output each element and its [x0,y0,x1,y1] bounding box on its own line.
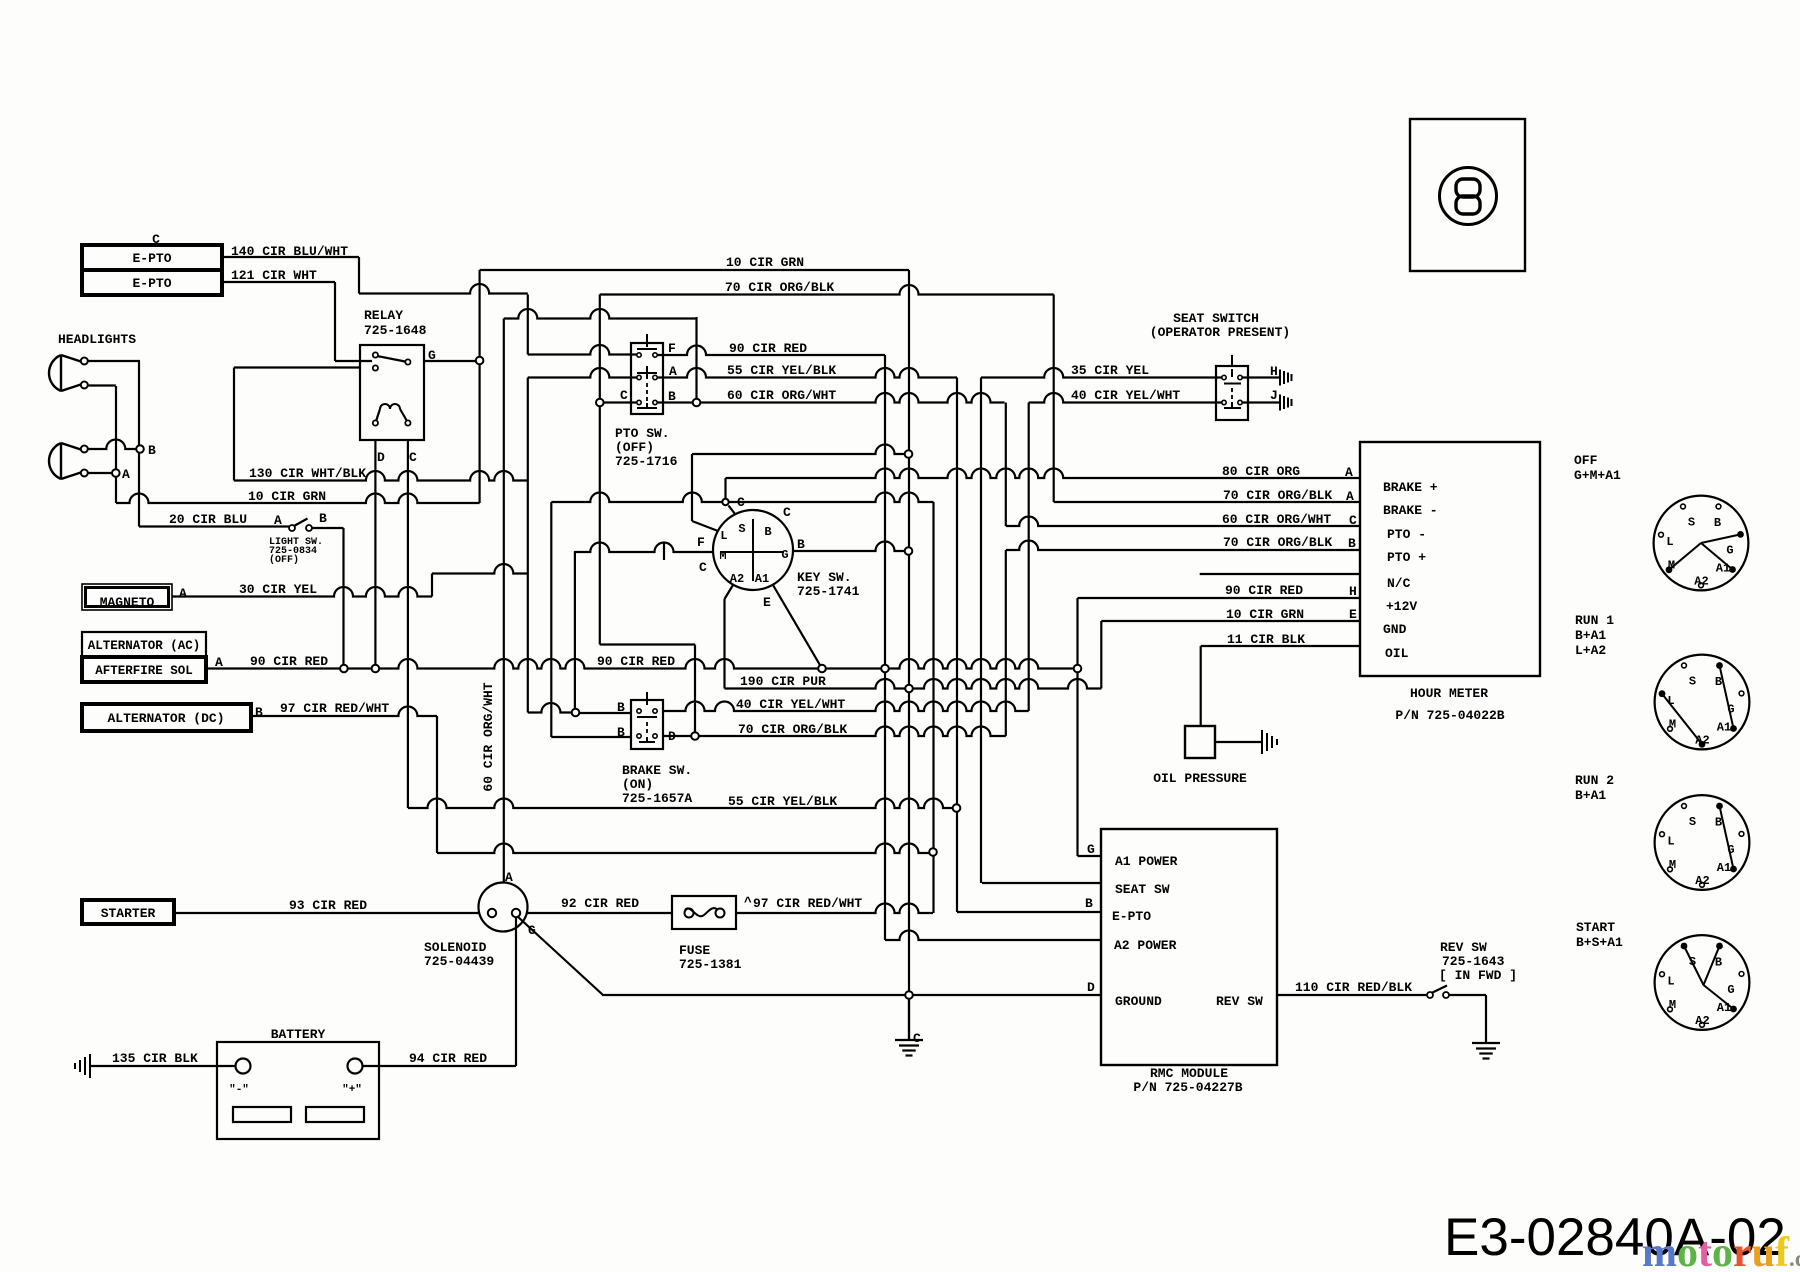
svg-text:^: ^ [744,895,752,910]
svg-text:REV SW: REV SW [1440,940,1487,955]
svg-text:H: H [1349,584,1357,599]
svg-text:G: G [528,923,536,938]
svg-text:G: G [1726,544,1733,558]
svg-text:60 CIR ORG/WHT: 60 CIR ORG/WHT [481,682,496,791]
svg-text:RUN 1: RUN 1 [1575,613,1614,628]
svg-text:C: C [409,450,417,465]
svg-text:40 CIR YEL/WHT: 40 CIR YEL/WHT [736,697,845,712]
svg-text:35 CIR YEL: 35 CIR YEL [1071,363,1149,378]
svg-text:A2: A2 [1695,874,1709,888]
svg-text:OIL PRESSURE: OIL PRESSURE [1153,771,1247,786]
svg-text:L+A2: L+A2 [1575,643,1606,658]
svg-text:PTO -: PTO - [1387,527,1426,542]
svg-text:10 CIR GRN: 10 CIR GRN [726,255,804,270]
svg-text:B+A1: B+A1 [1575,628,1606,643]
svg-text:J: J [1270,388,1278,403]
svg-text:725-1648: 725-1648 [364,323,427,338]
svg-text:OFF: OFF [1574,453,1598,468]
svg-text:(OFF): (OFF) [615,440,654,455]
svg-text:C: C [620,388,628,403]
svg-text:M: M [1669,998,1676,1012]
svg-text:B: B [148,443,156,458]
svg-text:SEAT SW: SEAT SW [1115,882,1170,897]
svg-text:725-1643: 725-1643 [1442,954,1505,969]
svg-text:SEAT SWITCH: SEAT SWITCH [1173,311,1259,326]
svg-text:C: C [699,560,707,575]
svg-text:190 CIR PUR: 190 CIR PUR [740,674,826,689]
svg-text:(OPERATOR PRESENT): (OPERATOR PRESENT) [1150,325,1290,340]
svg-text:B: B [1715,816,1722,830]
svg-text:A: A [215,655,223,670]
svg-text:G: G [1087,842,1095,857]
svg-text:BATTERY: BATTERY [271,1027,326,1042]
svg-text:90 CIR RED: 90 CIR RED [597,654,675,669]
svg-text:F: F [697,535,705,550]
svg-text:725-1741: 725-1741 [797,584,860,599]
svg-text:ALTERNATOR (AC): ALTERNATOR (AC) [88,639,201,653]
svg-text:110 CIR RED/BLK: 110 CIR RED/BLK [1295,980,1412,995]
svg-text:140 CIR BLU/WHT: 140 CIR BLU/WHT [231,244,348,259]
svg-text:PTO SW.: PTO SW. [615,426,670,441]
svg-text:B: B [1085,896,1093,911]
svg-text:90 CIR RED: 90 CIR RED [250,654,328,669]
svg-text:"-": "-" [229,1084,249,1096]
svg-text:S: S [1689,955,1696,969]
svg-text:55 CIR YEL/BLK: 55 CIR YEL/BLK [727,363,836,378]
svg-text:70 CIR ORG/BLK: 70 CIR ORG/BLK [1223,488,1332,503]
svg-text:SOLENOID: SOLENOID [424,940,487,955]
svg-text:A: A [1345,465,1353,480]
svg-text:80 CIR ORG: 80 CIR ORG [1222,464,1300,479]
svg-text:60 CIR ORG/WHT: 60 CIR ORG/WHT [727,388,836,403]
svg-text:[ IN FWD ]: [ IN FWD ] [1439,968,1517,983]
svg-text:(OFF): (OFF) [269,554,299,566]
svg-text:M: M [719,549,726,563]
svg-text:C: C [152,232,160,247]
svg-text:A: A [1346,489,1354,504]
svg-text:OIL: OIL [1385,646,1409,661]
svg-text:BRAKE SW.: BRAKE SW. [622,763,692,778]
svg-text:10 CIR GRN: 10 CIR GRN [248,489,326,504]
svg-text:A: A [274,513,282,528]
svg-text:KEY SW.: KEY SW. [797,570,852,585]
svg-text:E-PTO: E-PTO [132,276,171,291]
svg-text:G: G [781,548,788,562]
svg-text:A2: A2 [1695,1014,1709,1028]
svg-text:S: S [1688,516,1695,530]
svg-text:C: C [737,495,745,510]
svg-text:A: A [179,586,187,601]
svg-text:P/N 725-04227B: P/N 725-04227B [1133,1080,1242,1095]
svg-text:20 CIR BLU: 20 CIR BLU [169,512,247,527]
svg-text:70 CIR ORG/BLK: 70 CIR ORG/BLK [738,722,847,737]
svg-text:C: C [913,1031,921,1046]
svg-text:L: L [720,529,727,543]
svg-text:S: S [1689,815,1696,829]
svg-text:L: L [1667,694,1674,708]
svg-text:30 CIR YEL: 30 CIR YEL [239,582,317,597]
svg-text:B: B [617,700,625,715]
svg-text:D: D [377,450,385,465]
svg-text:A1: A1 [755,572,769,586]
svg-text:H: H [1270,364,1278,379]
svg-text:M: M [1669,718,1676,732]
svg-text:E: E [1349,607,1357,622]
svg-text:AFTERFIRE SOL: AFTERFIRE SOL [95,664,193,678]
svg-text:B: B [319,511,327,526]
svg-text:BRAKE -: BRAKE - [1383,503,1438,518]
svg-text:93 CIR RED: 93 CIR RED [289,898,367,913]
svg-text:L: L [1667,975,1674,989]
svg-text:A: A [669,364,677,379]
svg-text:L: L [1666,535,1673,549]
svg-text:60 CIR ORG/WHT: 60 CIR ORG/WHT [1222,512,1331,527]
svg-text:92 CIR RED: 92 CIR RED [561,896,639,911]
svg-text:725-1716: 725-1716 [615,454,678,469]
svg-text:F: F [668,341,676,356]
svg-text:11 CIR BLK: 11 CIR BLK [1227,632,1305,647]
svg-text:G: G [1727,983,1734,997]
svg-text:A2 POWER: A2 POWER [1114,938,1177,953]
svg-text:A: A [122,467,130,482]
svg-text:725-1657A: 725-1657A [622,791,692,806]
svg-text:725-04439: 725-04439 [424,954,494,969]
svg-text:S: S [1689,675,1696,689]
svg-text:HOUR METER: HOUR METER [1410,686,1488,701]
svg-text:RUN 2: RUN 2 [1575,773,1614,788]
svg-text:G: G [428,348,436,363]
svg-text:PTO +: PTO + [1387,550,1426,565]
svg-text:90 CIR RED: 90 CIR RED [729,341,807,356]
svg-text:G: G [1727,703,1734,717]
svg-text:70 CIR ORG/BLK: 70 CIR ORG/BLK [1223,535,1332,550]
svg-text:121 CIR WHT: 121 CIR WHT [231,268,317,283]
svg-text:A1 POWER: A1 POWER [1115,854,1178,869]
svg-text:GND: GND [1383,622,1407,637]
svg-text:10 CIR GRN: 10 CIR GRN [1226,607,1304,622]
svg-text:E-PTO: E-PTO [132,251,171,266]
svg-text:97 CIR RED/WHT: 97 CIR RED/WHT [753,896,862,911]
svg-text:A1: A1 [1717,861,1731,875]
svg-text:70 CIR ORG/BLK: 70 CIR ORG/BLK [725,280,834,295]
svg-text:D: D [1087,980,1095,995]
svg-text:A1: A1 [1716,562,1730,576]
svg-text:GROUND: GROUND [1115,994,1162,1009]
svg-text:M: M [1669,858,1676,872]
svg-text:B: B [617,725,625,740]
svg-text:(ON): (ON) [622,777,653,792]
svg-text:N/C: N/C [1387,576,1411,591]
svg-text:G: G [1727,843,1734,857]
svg-text:55 CIR YEL/BLK: 55 CIR YEL/BLK [728,794,837,809]
svg-text:A: A [505,870,513,885]
svg-text:L: L [1667,835,1674,849]
svg-text:A1: A1 [1717,1001,1731,1015]
svg-text:RELAY: RELAY [364,308,403,323]
svg-text:"+": "+" [342,1084,362,1096]
svg-text:HEADLIGHTS: HEADLIGHTS [58,332,136,347]
svg-text:D: D [668,729,676,744]
svg-text:RMC MODULE: RMC MODULE [1150,1066,1228,1081]
svg-text:40 CIR YEL/WHT: 40 CIR YEL/WHT [1071,388,1180,403]
svg-text:G+M+A1: G+M+A1 [1574,468,1621,483]
svg-text:B: B [1714,516,1721,530]
svg-text:94 CIR RED: 94 CIR RED [409,1051,487,1066]
svg-text:B+A1: B+A1 [1575,788,1606,803]
svg-text:A2: A2 [1695,734,1709,748]
svg-text:B+S+A1: B+S+A1 [1576,935,1623,950]
svg-text:E-PTO: E-PTO [1112,909,1151,924]
svg-text:ALTERNATOR (DC): ALTERNATOR (DC) [107,711,224,726]
svg-text:motoruf.de: motoruf.de [1642,1230,1800,1272]
svg-text:+12V: +12V [1386,599,1417,614]
svg-text:130 CIR WHT/BLK: 130 CIR WHT/BLK [249,466,366,481]
svg-text:REV SW: REV SW [1216,994,1263,1009]
svg-text:C: C [783,505,791,520]
svg-text:B: B [1348,536,1356,551]
svg-text:BRAKE +: BRAKE + [1383,480,1438,495]
svg-text:STARTER: STARTER [101,906,156,921]
svg-text:B: B [1715,956,1722,970]
svg-text:725-1381: 725-1381 [679,957,742,972]
svg-text:S: S [738,522,745,536]
svg-text:A1: A1 [1717,721,1731,735]
svg-text:97 CIR RED/WHT: 97 CIR RED/WHT [280,701,389,716]
svg-text:90 CIR RED: 90 CIR RED [1225,583,1303,598]
svg-text:B: B [255,705,263,720]
svg-text:MAGNETO: MAGNETO [100,595,155,610]
svg-text:A2: A2 [1694,575,1708,589]
svg-text:B: B [1715,675,1722,689]
svg-text:B: B [764,525,771,539]
svg-text:135 CIR BLK: 135 CIR BLK [112,1051,198,1066]
svg-text:E: E [763,595,771,610]
svg-text:C: C [1349,513,1357,528]
svg-text:B: B [668,389,676,404]
svg-text:START: START [1576,920,1615,935]
svg-text:P/N 725-04022B: P/N 725-04022B [1395,708,1504,723]
svg-text:A2: A2 [730,572,744,586]
svg-text:B: B [797,537,805,552]
svg-text:M: M [1668,559,1675,573]
svg-text:FUSE: FUSE [679,943,710,958]
